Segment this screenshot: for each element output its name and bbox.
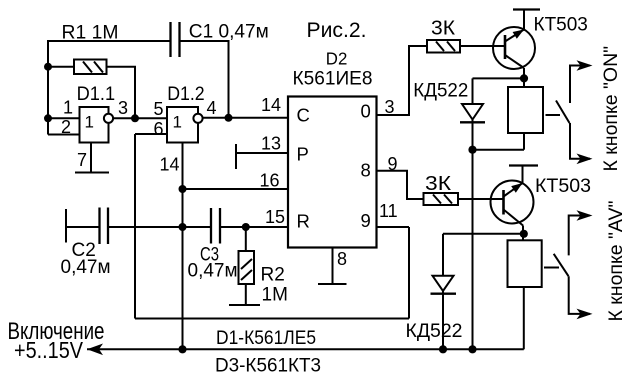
node supply VD2: [439, 345, 447, 353]
svg-text:КТ503: КТ503: [535, 176, 591, 197]
svg-text:14: 14: [261, 95, 281, 115]
op-amp U2 counter D2 box: [288, 97, 377, 248]
wire +V supply bottom: [87, 348, 524, 350]
svg-text:1: 1: [63, 98, 73, 118]
power rail bar Q1: [513, 8, 540, 10]
wire R1 right lead: [107, 67, 136, 119]
svg-text:0,47м: 0,47м: [188, 260, 238, 281]
terminal bar C2: [65, 209, 67, 243]
wire pin16 D2: [183, 188, 289, 190]
node pin16: [179, 185, 187, 193]
relay K2 coil: [508, 240, 542, 287]
node Q1 collector: [520, 74, 528, 82]
svg-text:К кнопке "AV": К кнопке "AV": [605, 201, 627, 322]
ground D2: [318, 283, 347, 285]
capacitor C1: [171, 22, 180, 57]
svg-text:0: 0: [361, 101, 371, 122]
svg-text:13: 13: [261, 134, 281, 154]
svg-text:КТ503: КТ503: [534, 15, 588, 36]
switch S1 bottom contact: [570, 123, 590, 159]
wire pin15 D2: [220, 226, 288, 228]
node pin15 left: [179, 223, 187, 231]
svg-text:5: 5: [154, 99, 164, 119]
svg-text:0,47м: 0,47м: [61, 257, 111, 278]
wire pin7 D1.1: [90, 143, 92, 173]
svg-text:+5..15V: +5..15V: [14, 337, 83, 363]
transistor Q1: [493, 27, 535, 69]
wire R2 top lead: [245, 227, 247, 251]
switch S1 blade: [556, 101, 570, 124]
wire R1 left lead: [48, 66, 74, 68]
resistor R4 3K: [424, 193, 459, 205]
switch S2 blade: [554, 254, 569, 276]
svg-text:C: C: [297, 105, 310, 126]
svg-text:Рис.2.: Рис.2.: [307, 18, 367, 42]
svg-text:3К: 3К: [431, 18, 455, 40]
node D1.1 out: [131, 114, 139, 122]
node R2 top: [242, 223, 250, 231]
wire Q2 collector: [522, 226, 524, 241]
wire pin9 D2 to R4: [377, 171, 424, 199]
terminal bar pin13: [235, 144, 237, 169]
switch S2 top contact: [569, 216, 590, 256]
svg-text:D2: D2: [326, 48, 348, 68]
svg-text:R1 1M: R1 1M: [62, 23, 119, 44]
svg-text:C1 0,47м: C1 0,47м: [189, 22, 269, 43]
wire C1 right to node A: [181, 41, 229, 118]
svg-text:14: 14: [160, 155, 180, 175]
switch S2 bottom contact: [569, 276, 590, 314]
gate D1.2 bubble: [193, 114, 202, 123]
power rail bar Q2: [509, 164, 538, 166]
wire Q1 emitter to rail: [523, 10, 525, 30]
resistor R2: [239, 251, 255, 284]
svg-text:2: 2: [61, 117, 71, 137]
switch S1 top contact: [570, 66, 590, 104]
wire feedback right vertical: [408, 227, 410, 319]
wire pin1 D1.1: [48, 117, 80, 119]
wire pin2 D1.1: [48, 134, 80, 136]
wire Q1 collector: [523, 68, 525, 87]
svg-text:3К: 3К: [425, 173, 451, 195]
node supply x182: [178, 345, 186, 353]
wire pin14 D1.2 vertical: [182, 143, 184, 350]
wire top-left vertical: [48, 41, 170, 135]
svg-text:8: 8: [361, 160, 371, 181]
op-amp U1 gate D1.1 box: [80, 107, 109, 143]
svg-text:К кнопке "ON": К кнопке "ON": [600, 46, 622, 172]
node VD1 cathode: [468, 146, 476, 154]
arrow S1 bottom: [577, 154, 593, 165]
wire R4 to Q2 base: [458, 198, 504, 200]
svg-text:7: 7: [77, 150, 87, 170]
node supply VD1: [468, 345, 476, 353]
wire R2 bottom lead: [245, 284, 247, 305]
svg-text:11: 11: [379, 201, 398, 221]
svg-text:1: 1: [173, 113, 182, 132]
arrow S2 top: [577, 210, 593, 221]
node junction dots: [44, 63, 528, 354]
relay K1 coil: [508, 87, 543, 133]
svg-text:1: 1: [85, 113, 94, 132]
capacitor C3: [211, 208, 220, 244]
resistor R3 3K: [427, 40, 460, 53]
wire Q2 emitter to rail: [522, 166, 524, 184]
switch S2 stub: [544, 267, 559, 269]
transistor Q2: [491, 181, 534, 226]
ground D1.1: [75, 172, 109, 174]
wire D1.1 output: [113, 117, 135, 119]
svg-text:D1-К561ЛЕ5: D1-К561ЛЕ5: [216, 328, 316, 349]
svg-text:6: 6: [154, 119, 164, 139]
wire node Q1 collector to VD1: [473, 77, 525, 79]
wire pin3 D2 to R3: [377, 46, 428, 115]
svg-text:4: 4: [207, 98, 217, 118]
gate D1.2 box: [167, 107, 198, 143]
wire pin8 D2: [332, 248, 334, 285]
svg-text:P: P: [297, 144, 309, 165]
svg-text:1М: 1М: [262, 285, 288, 306]
wire C2 to C3: [108, 226, 211, 228]
wire feedback bottom horizontal: [135, 318, 409, 320]
svg-text:15: 15: [265, 207, 285, 227]
svg-text:R2: R2: [261, 265, 285, 286]
svg-text:R: R: [297, 211, 310, 232]
wire R3 to Q1 base: [460, 45, 505, 47]
node D1.2 out: [225, 114, 233, 122]
svg-text:9: 9: [388, 154, 398, 174]
diode VD2: [431, 234, 457, 349]
svg-text:D1.2: D1.2: [167, 84, 205, 105]
wire pin5 D1.2: [135, 117, 167, 119]
svg-text:9: 9: [361, 210, 371, 231]
wire VD1 to relay K1 bottom: [473, 149, 525, 151]
arrow S1 top: [577, 60, 593, 71]
capacitor C2: [100, 208, 109, 245]
node D1.1 pin1: [44, 114, 52, 122]
wire node Q2 collector to VD2: [443, 233, 524, 235]
resistor R1: [74, 60, 107, 75]
arrow supply left: [87, 344, 103, 356]
gate D1.1 bubble: [104, 114, 113, 123]
svg-text:D1.1: D1.1: [77, 84, 116, 105]
diode VD1: [460, 78, 485, 349]
wire K1 bottom lead: [523, 133, 525, 150]
switch S1 stub: [546, 114, 561, 116]
wire C2 left lead: [66, 226, 100, 228]
wire pin13 D2: [236, 152, 288, 154]
wire pin6 D1.2: [135, 133, 167, 135]
node R1 left: [44, 63, 52, 71]
svg-text:D3-К561КТ3: D3-К561КТ3: [215, 356, 321, 377]
ground R2: [229, 304, 260, 306]
arrow S2 bottom: [577, 309, 593, 320]
svg-text:3: 3: [385, 97, 395, 117]
svg-text:8: 8: [337, 249, 347, 269]
wire feedback left vertical: [134, 134, 136, 319]
node Q2 collector: [520, 230, 528, 238]
svg-text:3: 3: [118, 98, 128, 118]
wire K2 bottom lead: [523, 287, 525, 349]
svg-text:КД522: КД522: [413, 81, 468, 102]
wire D1.2 output to D2: [203, 117, 288, 119]
svg-text:КД522: КД522: [406, 321, 463, 342]
wire pin11 D2: [377, 226, 410, 228]
svg-text:16: 16: [260, 171, 280, 191]
svg-text:К561ИЕ8: К561ИЕ8: [293, 68, 373, 89]
